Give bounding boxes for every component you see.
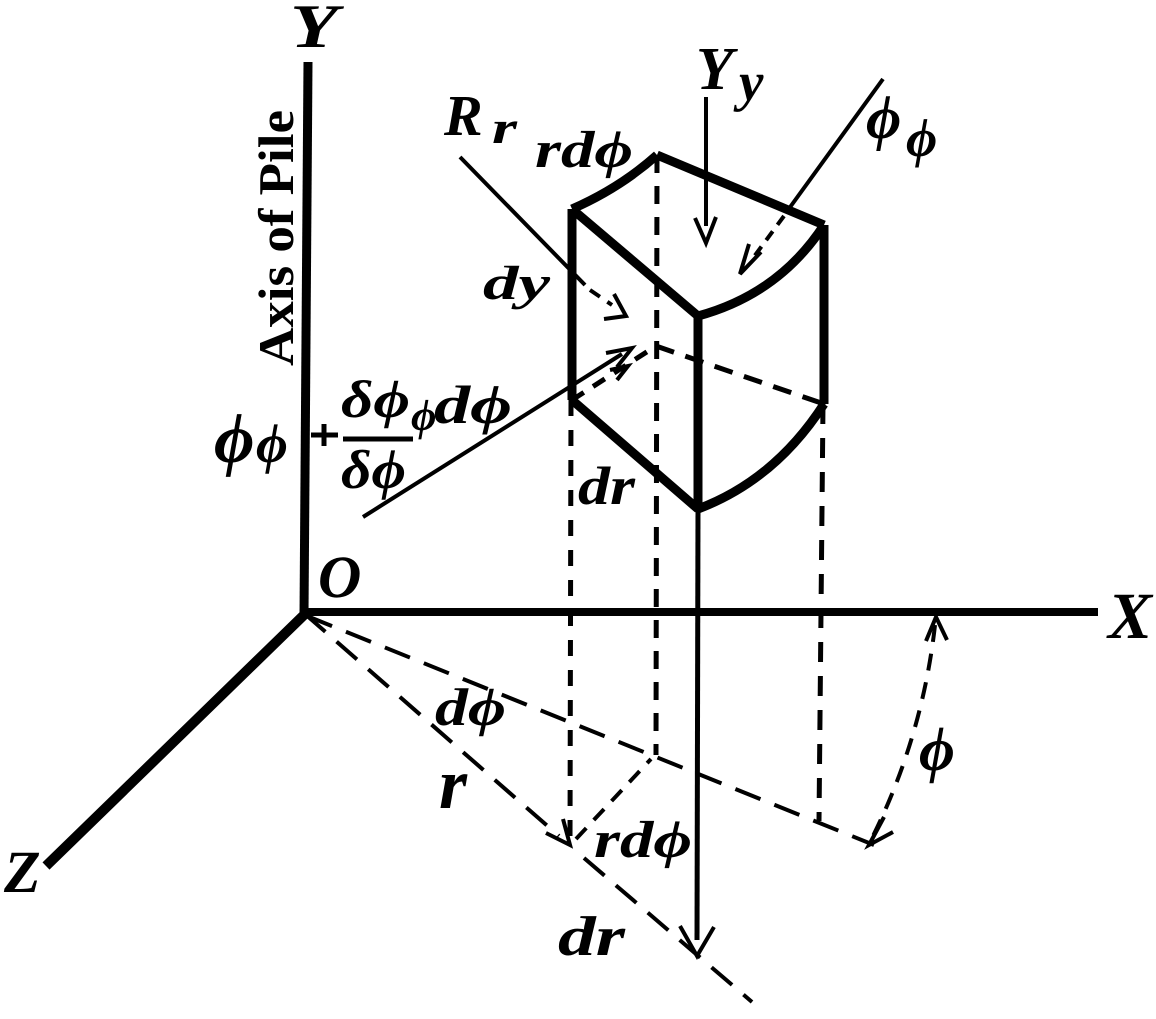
svg-text:dy: dy: [483, 257, 551, 310]
svg-text:δϕ: δϕ: [341, 439, 406, 500]
svg-text:O: O: [318, 544, 361, 610]
svg-text:Y: Y: [290, 0, 344, 61]
svg-text:Y: Y: [696, 36, 738, 103]
hidden back vertical edge + projection (dashed): [656, 155, 657, 755]
svg-text:ϕ: ϕ: [919, 716, 955, 784]
svg-text:y: y: [733, 51, 764, 112]
element right vertical edge: [820, 225, 829, 404]
element top face radial edge F-L: [572, 209, 698, 316]
label plus sign: [311, 424, 338, 446]
fraction bar: [343, 437, 413, 442]
svg-text:X: X: [1106, 580, 1154, 653]
ground radial (shallow, dashed): [307, 616, 874, 845]
element top face inner arc L-T: [572, 155, 657, 209]
small dashed arrowhead on hidden edge: [610, 366, 628, 380]
left projection vertical (dashed): [570, 400, 571, 843]
svg-text:ϕ: ϕ: [906, 108, 937, 168]
svg-text:ϕ: ϕ: [256, 413, 288, 474]
Z axis: [46, 614, 305, 866]
svg-text:Axis of Pile: Axis of Pile: [248, 110, 304, 366]
element top face radial edge T-R: [657, 155, 824, 225]
svg-text:Z: Z: [3, 839, 41, 905]
svg-text:rdϕ: rdϕ: [535, 122, 633, 179]
svg-text:r: r: [439, 744, 468, 824]
right projection vertical (dashed): [819, 404, 823, 821]
vector phi_phi + dphi (left, solid with arrow): [363, 354, 622, 517]
svg-text:rdϕ: rdϕ: [594, 812, 692, 869]
svg-text:ϕ: ϕ: [411, 391, 436, 440]
hidden bottom edge Lb-Tb (dashed): [572, 346, 656, 400]
Y axis: [304, 62, 308, 615]
vector Y_y arrow: [704, 97, 708, 226]
svg-text:R: R: [443, 83, 483, 148]
vector phi_phi upper right: [788, 79, 883, 210]
element front vertical edge: [694, 316, 703, 509]
svg-text:ϕ: ϕ: [866, 85, 901, 152]
element top face outer arc R-F: [698, 225, 824, 316]
front projection vertical (solid, arrow down): [697, 509, 698, 940]
element bottom outer arc Fb-Rb: [698, 404, 824, 509]
ground radial r (steep, dashed with arrow): [305, 614, 559, 836]
element bottom radial edge Lb-Fb: [572, 400, 698, 509]
X axis: [303, 608, 1098, 616]
svg-text:dϕ: dϕ: [434, 375, 512, 435]
svg-text:dϕ: dϕ: [435, 679, 506, 737]
svg-text:r: r: [492, 102, 519, 153]
ground radial extension dr: [584, 858, 752, 1002]
svg-text:dr: dr: [558, 906, 627, 968]
vector R_r: [460, 157, 585, 285]
svg-text:δϕ: δϕ: [341, 371, 410, 429]
svg-text:ϕ: ϕ: [214, 401, 255, 478]
hidden bottom edge Tb-Rb (dashed): [656, 346, 824, 404]
element left vertical edge: [568, 209, 577, 400]
ground chord r d-phi (dashed): [576, 759, 651, 839]
angle phi arc (dashed, arrows both ends): [872, 625, 935, 838]
svg-text:dr: dr: [578, 456, 636, 516]
